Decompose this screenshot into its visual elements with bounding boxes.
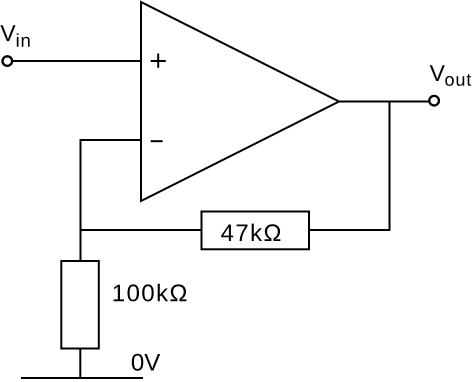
node Vin label: [0, 25, 15, 41]
wire op-amp output: [339, 101, 429, 103]
output terminal (Vout): [429, 96, 439, 106]
ground 0V rail: [21, 377, 143, 379]
resistor R2 100k box: [61, 261, 99, 349]
op-amp plus input marker: [151, 54, 166, 68]
input terminal (Vin): [3, 56, 13, 66]
wire junction node to feedback resistor: [81, 229, 202, 231]
wire feedback vertical: [389, 102, 391, 232]
wire 100k to ground: [79, 349, 81, 379]
wire inverting input horizontal: [81, 139, 142, 141]
wire inverting node vertical: [80, 139, 82, 261]
resistor R1 value label 47kΩ: [221, 224, 280, 241]
op-amp minus input marker: [151, 140, 163, 142]
wire Vin to op-amp non-inverting input: [12, 60, 141, 62]
node Vout subscript label: [445, 74, 471, 86]
wire 47k to feedback vertical: [309, 229, 391, 231]
resistor R2 value label 100kΩ: [114, 284, 187, 302]
op-amp U1: [141, 2, 339, 201]
node 0V label: [132, 354, 160, 371]
resistor R1 47k box: [202, 212, 310, 250]
node Vout label: [430, 65, 445, 81]
node Vin subscript label: [17, 33, 30, 46]
